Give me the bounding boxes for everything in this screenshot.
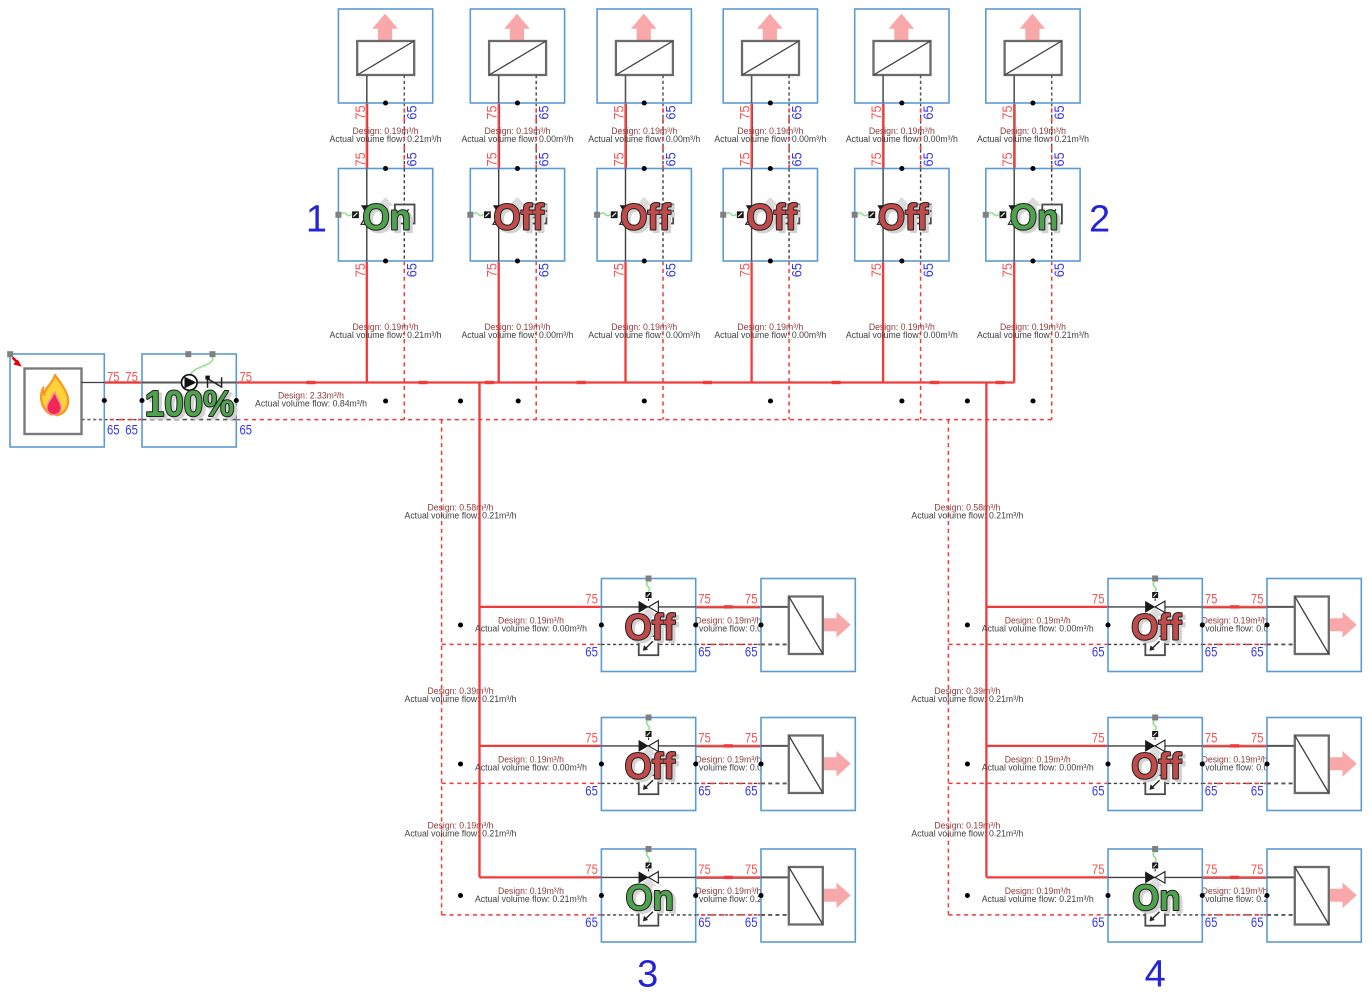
wire supply riser branch 4 (valve to bus) (750, 261, 752, 383)
flow labels branch 4 (714, 126, 826, 340)
svg-text:Actual volume flow: 0.00m³/h: Actual volume flow: 0.00m³/h (714, 134, 826, 144)
svg-text:75: 75 (352, 263, 368, 277)
svg-text:Off: Off (878, 197, 929, 238)
svg-text:Actual volume flow: 0.00m³/h: Actual volume flow: 0.00m³/h (982, 624, 1094, 634)
svg-text:Actual volume flow: 0.00m³/h: Actual volume flow: 0.00m³/h (475, 624, 587, 634)
svg-text:75: 75 (745, 590, 758, 606)
svg-text:Actual volume flow: 0.00m³/h: Actual volume flow: 0.00m³/h (588, 134, 700, 144)
temperature labels group 3 row 1 (585, 590, 757, 659)
wire radiator-valve return branch 4 (788, 103, 790, 169)
wire group 3 row 2 valve-radiator supply (696, 745, 761, 748)
svg-text:65: 65 (585, 783, 598, 799)
svg-text:75: 75 (698, 729, 711, 745)
svg-text:75: 75 (745, 861, 758, 877)
svg-text:Actual volume flow: 0.00m³/h: Actual volume flow: 0.00m³/h (846, 134, 958, 144)
svg-text:75: 75 (107, 368, 120, 384)
radiator group 3 row 1 (761, 579, 855, 672)
wire group 3 row 2 riser-valve supply (480, 745, 602, 747)
svg-text:Actual volume flow: 0.21m³/h: Actual volume flow: 0.21m³/h (977, 134, 1089, 144)
temperature labels branch 2 (484, 105, 552, 277)
wire radiator-valve supply branch 5 (882, 103, 885, 169)
svg-text:75: 75 (585, 590, 598, 606)
svg-text:65: 65 (1092, 783, 1105, 799)
svg-text:Actual volume flow: 0.21m³/h: Actual volume flow: 0.21m³/h (405, 829, 517, 839)
svg-text:65: 65 (698, 783, 711, 799)
flow labels branch 6 (977, 126, 1089, 340)
svg-text:65: 65 (404, 152, 420, 166)
svg-text:75: 75 (484, 105, 500, 119)
wire group 3 row 3 valve-radiator return (696, 914, 761, 916)
svg-text:Actual volume flow: 0.21m³/h: Actual volume flow: 0.21m³/h (911, 511, 1023, 521)
radiator group 3 row 3 (761, 849, 855, 942)
nodes on supply/return bus (383, 398, 1035, 403)
svg-text:75: 75 (999, 105, 1015, 119)
svg-text:65: 65 (1051, 263, 1067, 277)
svg-text:75: 75 (585, 861, 598, 877)
svg-text:75: 75 (1205, 729, 1218, 745)
svg-text:65: 65 (404, 263, 420, 277)
svg-text:75: 75 (737, 263, 753, 277)
svg-text:65: 65 (1205, 914, 1218, 930)
wire return riser branch 5 (valve to bus) (920, 261, 922, 420)
wire supply bus (75C) (236, 381, 1014, 383)
temperature labels group 4 row 1 (1092, 590, 1264, 659)
wire return riser branch 4 (valve to bus) (788, 261, 790, 420)
nodes branch 2 (515, 100, 520, 263)
svg-text:75: 75 (1092, 590, 1105, 606)
svg-text:2: 2 (1089, 198, 1110, 240)
svg-text:Off: Off (493, 197, 544, 238)
wire return riser branch 3 (valve to bus) (662, 261, 664, 420)
nodes group 4 row 3 (965, 893, 1270, 898)
valve group 3 row 1 (state Off) (601, 576, 695, 672)
marker red arrow boiler (13, 358, 22, 367)
svg-text:65: 65 (536, 152, 552, 166)
svg-text:65: 65 (662, 152, 678, 166)
flow label group 4 row 1 right (clipped) (1179, 616, 1291, 634)
svg-text:Actual volume flow: 0.21m³/h: Actual volume flow: 0.21m³/h (475, 894, 587, 904)
svg-text:75: 75 (611, 152, 627, 166)
nodes group 3 row 3 (458, 893, 764, 898)
svg-text:75: 75 (999, 152, 1015, 166)
wire radiator-valve supply branch 2 (498, 103, 501, 169)
valve V5 (top, state Off) (852, 169, 949, 262)
svg-text:65: 65 (698, 914, 711, 930)
svg-text:65: 65 (1051, 105, 1067, 119)
svg-text:65: 65 (789, 263, 805, 277)
svg-text:4: 4 (1145, 954, 1166, 996)
svg-text:On: On (1010, 197, 1058, 238)
svg-text:65: 65 (125, 421, 138, 437)
svg-text:3: 3 (637, 954, 658, 996)
svg-text:65: 65 (745, 914, 758, 930)
svg-text:75: 75 (1092, 729, 1105, 745)
wire radiator-valve supply branch 3 (625, 103, 628, 169)
svg-text:Actual volume flow: 0.21m³/h: Actual volume flow: 0.21m³/h (330, 330, 442, 340)
svg-text:Off: Off (1131, 746, 1182, 787)
wire junction ticks on bus (306, 381, 1004, 384)
wire supply riser branch 6 (valve to bus) (1013, 261, 1015, 383)
svg-text:75: 75 (611, 105, 627, 119)
wire group 3 supply riser (478, 383, 480, 878)
wire group 3 row 3 riser-valve return (442, 914, 602, 916)
svg-text:65: 65 (698, 644, 711, 660)
nodes group 3 row 1 (458, 622, 764, 627)
svg-text:Off: Off (1131, 607, 1182, 648)
svg-text:75: 75 (737, 105, 753, 119)
wire group 4 row 3 riser-valve supply (986, 876, 1108, 878)
nodes group 3 row 2 (458, 761, 764, 766)
svg-text:65: 65 (662, 105, 678, 119)
flow labels branch 2 (461, 126, 573, 340)
svg-text:75: 75 (745, 729, 758, 745)
wire group 4 supply riser (985, 383, 987, 878)
valve group 3 row 3 (state On) (601, 846, 695, 942)
svg-text:75: 75 (698, 861, 711, 877)
nodes branch 5 (899, 100, 904, 263)
svg-text:Actual volume flow: 0.00m³/h: Actual volume flow: 0.00m³/h (588, 330, 700, 340)
svg-text:Actual volume flow: 0.21m³/h: Actual volume flow: 0.21m³/h (977, 330, 1089, 340)
nodes branch 6 (1030, 100, 1035, 263)
svg-text:Actual volume flow: 0.00m³/h: Actual volume flow: 0.00m³/h (461, 330, 573, 340)
wire group 3 row 1 riser-valve return (442, 643, 602, 645)
svg-text:65: 65 (1205, 644, 1218, 660)
label circuit 2 (1089, 198, 1110, 240)
temperature labels group 4 row 3 (1092, 861, 1264, 930)
svg-text:75: 75 (352, 152, 368, 166)
svg-text:Off: Off (625, 607, 676, 648)
svg-text:Off: Off (746, 197, 797, 238)
nodes group 4 row 1 (965, 622, 1270, 627)
wire radiator-valve supply branch 1 (366, 103, 369, 169)
svg-text:65: 65 (585, 914, 598, 930)
svg-text:75: 75 (125, 368, 138, 384)
radiator R4 (top) (723, 9, 817, 103)
svg-text:75: 75 (585, 729, 598, 745)
flow label group 3 row 2 right (clipped) (672, 755, 784, 773)
flow label group 3 row 2 left (475, 755, 587, 773)
temperature labels group 3 row 2 (585, 729, 757, 798)
wire group 4 row 1 riser-valve return (948, 643, 1108, 645)
wire radiator-valve return branch 3 (662, 103, 664, 169)
svg-text:75: 75 (868, 152, 884, 166)
flow label group 4 row 1 left (982, 616, 1094, 634)
valve group 4 row 1 (state Off) (1108, 576, 1202, 672)
svg-text:65: 65 (585, 644, 598, 660)
valve group 4 row 2 (state Off) (1108, 715, 1202, 811)
temperature labels group 4 row 2 (1092, 729, 1264, 798)
svg-text:65: 65 (107, 421, 120, 437)
wire radiator-valve supply branch 4 (751, 103, 754, 169)
handle boiler top-left (7, 351, 13, 357)
svg-text:75: 75 (611, 263, 627, 277)
label circuit 1 (306, 198, 327, 240)
wire return riser branch 6 (valve to bus) (1051, 261, 1053, 420)
valve V4 (top, state Off) (720, 169, 817, 262)
svg-text:75: 75 (484, 263, 500, 277)
flow labels branch 1 (330, 126, 442, 340)
svg-text:75: 75 (1251, 729, 1264, 745)
radiator R1 (top) (338, 9, 432, 103)
svg-text:75: 75 (1092, 861, 1105, 877)
temperature labels branch 4 (737, 105, 805, 277)
wire radiator-valve supply branch 6 (1013, 103, 1016, 169)
wire group 4 row 2 valve-radiator return (1202, 782, 1267, 784)
svg-text:75: 75 (698, 590, 711, 606)
svg-text:75: 75 (868, 263, 884, 277)
svg-text:Actual volume flow: 0.21m³/h: Actual volume flow: 0.21m³/h (911, 694, 1023, 704)
valve V6 (top, state On) (983, 169, 1080, 262)
flow labels group 3 riser (405, 503, 517, 839)
svg-text:Actual volume flow: 0.21m³/h: Actual volume flow: 0.21m³/h (405, 694, 517, 704)
svg-text:Actual volume flow: 0.00m³/h: Actual volume flow: 0.00m³/h (714, 330, 826, 340)
svg-text:75: 75 (240, 368, 253, 384)
svg-text:Off: Off (625, 746, 676, 787)
temperature labels group 3 row 3 (585, 861, 757, 930)
radiator group 4 row 2 (1267, 718, 1361, 811)
svg-text:75: 75 (1251, 861, 1264, 877)
svg-text:On: On (626, 878, 674, 919)
wire supply riser branch 2 (valve to bus) (498, 261, 500, 383)
temperature labels branch 1 (352, 105, 420, 277)
svg-text:65: 65 (536, 263, 552, 277)
wire return riser branch 1 (valve to bus) (403, 261, 405, 420)
temperature labels pump area (107, 368, 252, 437)
svg-text:65: 65 (240, 421, 253, 437)
flow label group 4 row 2 right (clipped) (1179, 755, 1291, 773)
wire group 4 row 1 riser-valve supply (986, 606, 1108, 608)
svg-text:Actual volume flow: 0.84m³/h: Actual volume flow: 0.84m³/h (255, 399, 367, 409)
flow labels group 4 riser (911, 503, 1023, 839)
svg-text:75: 75 (999, 263, 1015, 277)
svg-text:Actual volume flow: 0.00m³/h: Actual volume flow: 0.00m³/h (846, 330, 958, 340)
svg-text:65: 65 (1251, 644, 1264, 660)
svg-text:Actual volume flow: 0.21m³/h: Actual volume flow: 0.21m³/h (982, 894, 1094, 904)
wire group 4 row 2 valve-radiator supply (1202, 745, 1267, 748)
svg-text:65: 65 (789, 105, 805, 119)
svg-text:75: 75 (1205, 590, 1218, 606)
valve V1 (top, state On) (335, 169, 432, 262)
wire group 3 row 3 riser-valve supply (480, 876, 602, 878)
svg-text:Actual volume flow: 0.21m³/h: Actual volume flow: 0.21m³/h (330, 134, 442, 144)
svg-text:65: 65 (920, 152, 936, 166)
wire supply riser branch 3 (valve to bus) (624, 261, 626, 383)
valve V3 (top, state Off) (594, 169, 691, 262)
boiler B1 (10, 354, 104, 447)
svg-text:65: 65 (1051, 152, 1067, 166)
svg-text:65: 65 (745, 783, 758, 799)
svg-text:75: 75 (1251, 590, 1264, 606)
svg-text:75: 75 (352, 105, 368, 119)
svg-text:Actual volume flow: 0.00m³/h: Actual volume flow: 0.00m³/h (475, 763, 587, 773)
svg-text:65: 65 (920, 105, 936, 119)
wire group 4 row 3 riser-valve return (948, 914, 1108, 916)
flow label group 3 row 3 left (475, 886, 587, 904)
wire radiator-valve return branch 1 (403, 103, 405, 169)
svg-text:65: 65 (404, 105, 420, 119)
label circuit 3 (637, 954, 658, 996)
flow label group 4 row 3 right (clipped) (1179, 886, 1291, 904)
wire group 3 row 1 riser-valve supply (480, 606, 602, 608)
radiator R2 (top) (470, 9, 564, 103)
wire group 4 row 3 valve-radiator supply (1202, 876, 1267, 879)
svg-text:75: 75 (484, 152, 500, 166)
wire radiator-valve return branch 2 (535, 103, 537, 169)
svg-text:1: 1 (306, 198, 327, 240)
radiator group 3 row 2 (761, 718, 855, 811)
valve group 4 row 3 (state On) (1108, 846, 1202, 942)
node pump outlet (234, 398, 239, 403)
svg-text:65: 65 (1092, 644, 1105, 660)
wire group 4 row 2 riser-valve supply (986, 745, 1108, 747)
flow label group 3 row 3 right (clipped) (672, 886, 784, 904)
wire group 4 row 3 valve-radiator return (1202, 914, 1267, 916)
wire radiator-valve return branch 6 (1051, 103, 1053, 169)
temperature labels branch 5 (868, 105, 936, 277)
svg-text:65: 65 (920, 263, 936, 277)
wire radiator-valve return branch 5 (920, 103, 922, 169)
wire group 3 row 2 riser-valve return (442, 782, 602, 784)
valve V2 (top, state Off) (467, 169, 564, 262)
wire group 4 row 1 valve-radiator supply (1202, 606, 1267, 609)
label circuit 4 (1145, 954, 1166, 996)
wire boiler-pump return (104, 419, 142, 421)
svg-text:65: 65 (536, 105, 552, 119)
wire group 3 row 1 valve-radiator return (696, 643, 761, 645)
svg-text:Actual volume flow: 0.00m³/h: Actual volume flow: 0.00m³/h (461, 134, 573, 144)
svg-text:On: On (363, 197, 411, 238)
wire group 3 row 3 valve-radiator supply (696, 876, 761, 879)
node boiler outlet (102, 398, 107, 403)
flow label pump-bus (255, 391, 367, 409)
svg-text:100%: 100% (145, 383, 234, 424)
flow labels branch 3 (588, 126, 700, 340)
svg-text:65: 65 (789, 152, 805, 166)
nodes branch 1 (383, 100, 388, 263)
flow label group 4 row 2 left (982, 755, 1094, 773)
svg-text:65: 65 (1251, 783, 1264, 799)
wire group 4 row 2 riser-valve return (948, 782, 1108, 784)
temperature labels branch 3 (611, 105, 679, 277)
wire supply riser branch 1 (valve to bus) (366, 261, 368, 383)
svg-text:65: 65 (1251, 914, 1264, 930)
radiator group 4 row 1 (1267, 579, 1361, 672)
svg-text:75: 75 (1205, 861, 1218, 877)
wire return riser branch 2 (valve to bus) (535, 261, 537, 420)
svg-text:65: 65 (745, 644, 758, 660)
wire group 3 row 1 valve-radiator supply (696, 606, 761, 609)
valve group 3 row 2 (state Off) (601, 715, 695, 811)
radiator R6 (top) (986, 9, 1080, 103)
wire supply riser branch 5 (valve to bus) (882, 261, 884, 383)
node pump inlet (139, 398, 144, 403)
wire group 3 return riser (441, 420, 443, 915)
nodes group 4 row 2 (965, 761, 1270, 766)
svg-text:65: 65 (662, 263, 678, 277)
svg-text:On: On (1132, 878, 1180, 919)
svg-text:75: 75 (737, 152, 753, 166)
temperature labels branch 6 (999, 105, 1067, 277)
wire group 4 row 1 valve-radiator return (1202, 643, 1267, 645)
svg-text:Actual volume flow: 0.21m³/h: Actual volume flow: 0.21m³/h (911, 829, 1023, 839)
flow labels branch 5 (846, 126, 958, 340)
svg-text:Actual volume flow: 0.21m³/h: Actual volume flow: 0.21m³/h (405, 511, 517, 521)
svg-text:65: 65 (1205, 783, 1218, 799)
pump P1 (142, 351, 237, 447)
svg-text:65: 65 (1092, 914, 1105, 930)
nodes branch 4 (768, 100, 773, 263)
svg-text:75: 75 (868, 105, 884, 119)
wire boiler-pump supply (104, 382, 142, 384)
radiator group 4 row 3 (1267, 849, 1361, 942)
wire group 3 row 2 valve-radiator return (696, 782, 761, 784)
wire return bus (65C dashed) (236, 419, 1051, 421)
flow label group 3 row 1 left (475, 616, 587, 634)
flow label group 3 row 1 right (clipped) (672, 616, 784, 634)
wire group 4 return riser (947, 420, 949, 915)
svg-text:Off: Off (620, 197, 671, 238)
nodes branch 3 (642, 100, 647, 263)
flow label group 4 row 3 left (982, 886, 1094, 904)
radiator R5 (top) (855, 9, 949, 103)
svg-text:Actual volume flow: 0.00m³/h: Actual volume flow: 0.00m³/h (982, 763, 1094, 773)
radiator R3 (top) (597, 9, 691, 103)
